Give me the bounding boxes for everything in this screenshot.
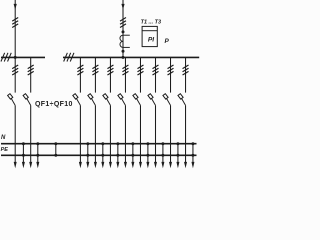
breaker QF5 bbox=[103, 94, 111, 106]
breaker QF2 bbox=[23, 94, 31, 106]
node tap 6 at PE bbox=[131, 154, 134, 157]
wire QF7 upper bbox=[139, 57, 141, 92]
3-phase marks QF3 bbox=[77, 65, 83, 69]
wire N/PE tap 1 bbox=[22, 144, 24, 163]
node feeder W1 to busbar 1 bbox=[14, 56, 17, 59]
node tap 3 at PE bbox=[86, 154, 89, 157]
wire QF4 lower bbox=[94, 105, 96, 162]
node CT bottom bbox=[122, 50, 125, 53]
node jumper-PE bbox=[54, 154, 57, 157]
outgoing arrow QF7 bbox=[139, 162, 142, 168]
node tap 4 at PE bbox=[101, 154, 104, 157]
3-phase marks QF10 bbox=[183, 65, 189, 69]
PE bus bbox=[1, 154, 197, 156]
3-phase marks QF8 bbox=[153, 65, 159, 69]
node tap 7 at N bbox=[146, 142, 149, 145]
wire N/PE tap 10 bbox=[192, 144, 194, 163]
meter PI top line bbox=[142, 30, 157, 32]
breaker QF9 bbox=[163, 94, 171, 106]
outgoing arrow tap 7 bbox=[146, 162, 149, 168]
3-phase marks QF5 bbox=[107, 65, 113, 69]
node CT top bbox=[122, 30, 125, 33]
node tap 9 at N bbox=[176, 142, 179, 145]
3-phase marks QF1 bbox=[12, 65, 18, 69]
breaker QF8 bbox=[148, 94, 156, 106]
wire QF1 upper bbox=[14, 57, 16, 92]
outgoing arrow QF8 bbox=[154, 162, 157, 168]
outgoing arrow tap 3 bbox=[86, 162, 89, 168]
wire incoming feeder W1 bbox=[14, 0, 16, 57]
3-phase marks W2 bbox=[120, 18, 126, 22]
wire QF10 upper bbox=[185, 57, 187, 92]
node tap 6 at N bbox=[131, 142, 134, 145]
outgoing arrow tap 5 bbox=[116, 162, 119, 168]
wire N/PE tap 2 bbox=[37, 144, 39, 163]
N bus bbox=[1, 143, 197, 145]
wire N/PE tap 5 bbox=[117, 144, 119, 163]
node tap 1 at PE bbox=[22, 154, 25, 157]
outgoing arrow tap 10 bbox=[191, 162, 194, 168]
busbar section 2 bbox=[63, 56, 199, 58]
wire N-PE jumper bbox=[55, 144, 57, 156]
wire QF7 lower bbox=[139, 105, 141, 162]
breaker QF1 bbox=[8, 94, 16, 106]
svg-text:PI: PI bbox=[148, 36, 154, 43]
wire QF6 upper bbox=[124, 57, 126, 92]
breaker QF6 bbox=[118, 94, 126, 106]
wire QF4 upper bbox=[94, 57, 96, 92]
wire QF3 upper bbox=[79, 57, 81, 92]
node tap 10 at PE bbox=[191, 154, 194, 157]
wire N/PE tap 6 bbox=[132, 144, 134, 163]
outgoing arrow QF1 bbox=[14, 162, 17, 168]
node tap 10 at N bbox=[191, 142, 194, 145]
3-phase marks W1 bbox=[12, 18, 18, 22]
wire QF5 upper bbox=[109, 57, 111, 92]
node tap 2 at N bbox=[36, 142, 39, 145]
wire QF10 lower bbox=[185, 105, 187, 162]
incoming feeder W1 arrow bbox=[14, 4, 17, 10]
node tap 5 at N bbox=[116, 142, 119, 145]
current transformer T1...T3 bbox=[120, 35, 130, 47]
meter PI box bbox=[142, 26, 157, 46]
busbar 1 end hatch bbox=[1, 53, 5, 62]
svg-text:P: P bbox=[165, 38, 170, 45]
3-phase marks QF6 bbox=[122, 65, 128, 69]
outgoing arrow QF5 bbox=[109, 162, 112, 168]
wire QF8 lower bbox=[155, 105, 157, 162]
3-phase marks QF2 bbox=[28, 65, 34, 69]
wire QF9 lower bbox=[170, 105, 172, 162]
outgoing arrow tap 1 bbox=[22, 162, 25, 168]
incoming feeder W2 arrow bbox=[121, 4, 124, 10]
svg-text:QF1÷QF10: QF1÷QF10 bbox=[35, 101, 73, 108]
outgoing arrow QF9 bbox=[169, 162, 172, 168]
node tap 5 at PE bbox=[116, 154, 119, 157]
outgoing arrow tap 9 bbox=[176, 162, 179, 168]
wire incoming feeder W2 bbox=[122, 0, 124, 57]
busbar section 1 bbox=[1, 56, 45, 58]
node tap 8 at PE bbox=[161, 154, 164, 157]
wire N/PE tap 4 bbox=[102, 144, 104, 163]
wire N/PE tap 3 bbox=[87, 144, 89, 163]
wire N/PE tap 7 bbox=[147, 144, 149, 163]
node tap 2 at PE bbox=[36, 154, 39, 157]
breaker QF3 bbox=[73, 94, 81, 106]
outgoing arrow QF2 bbox=[29, 162, 32, 168]
wire N/PE tap 9 bbox=[177, 144, 179, 163]
node tap 4 at N bbox=[101, 142, 104, 145]
wire QF6 lower bbox=[124, 105, 126, 162]
node tap 8 at N bbox=[161, 142, 164, 145]
3-phase marks QF4 bbox=[92, 65, 98, 69]
wire QF3 lower bbox=[79, 105, 81, 162]
outgoing arrow QF10 bbox=[184, 162, 187, 168]
wire QF1 lower bbox=[14, 105, 16, 162]
breaker QF4 bbox=[88, 94, 96, 106]
node tap 7 at PE bbox=[146, 154, 149, 157]
wire QF2 upper bbox=[30, 57, 32, 92]
outgoing arrow QF3 bbox=[79, 162, 82, 168]
wire N/PE tap 8 bbox=[162, 144, 164, 163]
svg-text:PE: PE bbox=[1, 147, 9, 153]
svg-text:T1 ... T3: T1 ... T3 bbox=[141, 19, 161, 25]
wire QF5 lower bbox=[109, 105, 111, 162]
node jumper-N bbox=[54, 142, 57, 145]
wire QF2 lower bbox=[30, 105, 32, 162]
3-phase marks QF7 bbox=[137, 65, 143, 69]
node tap 9 at PE bbox=[176, 154, 179, 157]
busbar 2 end hatch bbox=[64, 53, 68, 62]
breaker QF10 bbox=[178, 94, 186, 106]
outgoing arrow tap 8 bbox=[161, 162, 164, 168]
wire QF8 upper bbox=[155, 57, 157, 92]
node tap 3 at N bbox=[86, 142, 89, 145]
outgoing arrow tap 6 bbox=[131, 162, 134, 168]
outgoing arrow QF6 bbox=[124, 162, 127, 168]
node tap 1 at N bbox=[22, 142, 25, 145]
node feeder W2 to busbar 2 bbox=[122, 56, 125, 59]
outgoing arrow tap 2 bbox=[36, 162, 39, 168]
breaker QF7 bbox=[133, 94, 141, 106]
svg-text:N: N bbox=[1, 135, 6, 141]
outgoing arrow QF4 bbox=[94, 162, 97, 168]
3-phase marks QF9 bbox=[168, 65, 174, 69]
outgoing arrow tap 4 bbox=[101, 162, 104, 168]
wire QF9 upper bbox=[170, 57, 172, 92]
